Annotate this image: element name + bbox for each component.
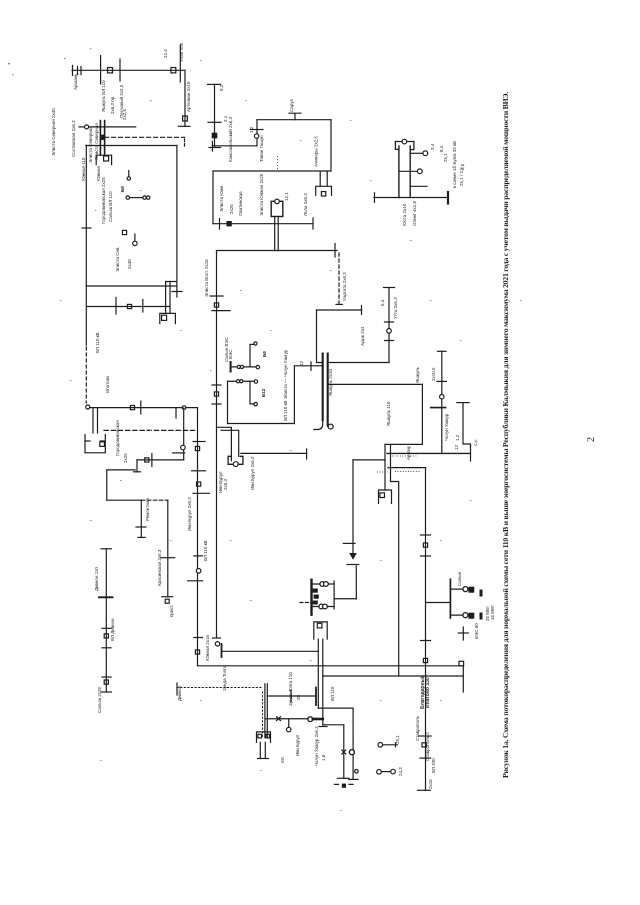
page number 2 <box>586 437 597 442</box>
label: south east <box>395 571 490 789</box>
label: line names top <box>101 42 319 167</box>
wire: corner <box>106 470 108 500</box>
breaker <box>423 543 427 547</box>
transformer: bracket east <box>316 186 332 195</box>
transformer: bracket <box>160 313 176 323</box>
wire: Elista long vertical <box>216 251 218 639</box>
wire: dashed left drop <box>85 347 87 403</box>
svg-text:24,3: 24,3 <box>398 767 403 776</box>
node: tick <box>212 384 221 386</box>
svg-text:Яшкуль ВЛ 110: Яшкуль ВЛ 110 <box>101 80 106 112</box>
breaker <box>197 482 201 486</box>
wire: second long bus <box>323 675 464 677</box>
wire: heavy link <box>313 718 323 721</box>
node: tick <box>334 244 336 258</box>
svg-text:12,1: 12,1 <box>284 192 289 201</box>
svg-text:12: 12 <box>299 360 304 366</box>
node: tick <box>102 627 111 629</box>
svg-text:Ачинеры 2х2,5: Ачинеры 2х2,5 <box>314 136 319 167</box>
transformer: Elista U-bracket <box>228 456 243 464</box>
busbar: Utta top <box>384 287 395 289</box>
wire: Utta-Yashkul column <box>441 351 443 453</box>
generator circle n1 <box>127 177 130 180</box>
disconnector: filled <box>227 222 231 226</box>
svg-text:20: 20 <box>296 694 301 700</box>
wire: link <box>107 499 142 501</box>
svg-text:Городовиковская: Городовиковская <box>115 420 120 456</box>
node: tick <box>102 676 111 678</box>
node: x junction <box>342 750 346 754</box>
node: end bar <box>417 789 430 791</box>
node: end bar <box>213 637 221 639</box>
wire: link <box>334 598 356 600</box>
wire: stub <box>183 450 185 460</box>
breaker Q1 <box>108 68 113 73</box>
breaker <box>214 303 218 307</box>
transformer circle <box>275 199 280 204</box>
generator circles rail2 <box>237 380 240 383</box>
svg-text:Б12: Б12 <box>261 388 266 397</box>
svg-text:12,4: 12,4 <box>163 49 168 58</box>
wire: drop 2 <box>352 738 354 779</box>
wire: 110kV bus Arshan top <box>72 69 185 71</box>
node: tick <box>437 380 447 382</box>
breaker <box>195 650 199 654</box>
node: tick long <box>212 310 230 312</box>
wire: ring2 right <box>176 146 178 298</box>
load arrow <box>349 553 357 560</box>
svg-text:Ставрополь 2: Ставрополь 2 <box>425 732 430 761</box>
wire + generator circle 2 <box>400 170 418 172</box>
transformer: castle bracket <box>85 435 105 453</box>
node: tick <box>140 401 142 414</box>
wire: Remontnaya stub <box>136 460 138 472</box>
wire: stub down <box>288 719 290 727</box>
svg-text:Дивное: Дивное <box>177 685 182 701</box>
disconnector: filled marks <box>313 589 318 593</box>
wire: dashed stub <box>184 139 186 146</box>
svg-text:Элиста Северная 2х40: Элиста Северная 2х40 <box>51 108 56 156</box>
label: B8 mark <box>120 186 125 192</box>
wire: branch <box>267 695 316 697</box>
wire: link <box>89 126 136 128</box>
svg-text:Харгата 2х6,3: Харгата 2х6,3 <box>342 272 347 301</box>
wire: ring2 top <box>86 145 177 147</box>
label: center south <box>187 497 335 766</box>
svg-text:25,1: 25,1 <box>395 735 400 744</box>
svg-text:ВЛ 110 кВ: ВЛ 110 кВ <box>203 540 208 561</box>
breaker Q2 <box>171 68 176 73</box>
svg-text:2: 2 <box>586 437 597 442</box>
wire: stub <box>128 171 130 177</box>
svg-text:2х25: 2х25 <box>123 453 128 463</box>
svg-text:Арзгир: Арзгир <box>406 445 411 460</box>
wire: pair below <box>260 742 265 758</box>
busbar: Yusta <box>374 197 448 199</box>
svg-text:Элиста Северная: Элиста Северная <box>94 123 99 160</box>
node: end bar <box>361 306 363 315</box>
node: tick <box>192 470 206 472</box>
wire: pair south <box>318 639 323 725</box>
label: extra <box>94 123 255 490</box>
wire: riser <box>256 120 258 146</box>
node: tap ticks <box>78 67 82 75</box>
svg-text:Элиста Вост. 2х16: Элиста Вост. 2х16 <box>204 259 209 297</box>
transformer: bracket <box>257 732 271 742</box>
busbar: right end bar <box>447 192 449 203</box>
svg-text:Южная 110: Южная 110 <box>81 157 86 181</box>
svg-text:Красинская 2х6,3: Красинская 2х6,3 <box>157 549 162 586</box>
svg-text:25,1: 25,1 <box>443 153 448 162</box>
wire: drop left <box>227 381 229 423</box>
junction circle <box>182 406 186 410</box>
node: end tick <box>211 142 213 152</box>
wire: ring bottom edge <box>213 223 313 225</box>
disconnector: filled <box>101 135 105 139</box>
svg-text:3,4: 3,4 <box>430 143 435 150</box>
svg-text:прист.: прист. <box>169 604 174 617</box>
node: tick <box>136 526 146 528</box>
busbar: MKGRES lower <box>310 599 312 615</box>
node: side ticks <box>335 783 354 785</box>
wire: dashed south tie <box>104 429 196 431</box>
node: tick <box>161 557 175 559</box>
node: tick <box>343 542 355 544</box>
wire: link east <box>294 365 322 367</box>
node: left end tick <box>374 193 376 203</box>
transformer: Elista East pair <box>166 282 170 314</box>
generator circle v1 <box>463 587 468 592</box>
busbar: top bar <box>457 402 469 404</box>
wire: stub <box>352 543 354 553</box>
svg-text:Оватинская: Оватинская <box>238 191 243 216</box>
node: end bar <box>138 536 145 538</box>
node: end bar <box>349 778 358 780</box>
busbar: wind <box>230 362 232 372</box>
node: tick <box>385 340 394 342</box>
wire: double drop Yusta <box>399 146 410 198</box>
generator circle <box>133 241 137 245</box>
svg-text:5,4: 5,4 <box>380 299 385 306</box>
svg-text:Улан Хол: Улан Хол <box>179 42 184 62</box>
busbar: bar <box>173 452 185 454</box>
node: tick <box>208 121 221 123</box>
transformer circle Sostinskaya <box>85 125 89 129</box>
svg-text:Чолун Хамур 2х6,3: Чолун Хамур 2х6,3 <box>314 726 319 766</box>
node: tick <box>219 219 221 230</box>
wire: hook <box>250 344 254 367</box>
wire: link to thick bus <box>328 362 389 364</box>
node: bar <box>290 690 292 702</box>
busbar: end <box>315 688 317 706</box>
node: load bar <box>347 564 359 566</box>
svg-text:ВЭС 60: ВЭС 60 <box>474 623 479 639</box>
wire: bottom rail <box>228 423 295 425</box>
node: top tick <box>101 548 112 550</box>
transformer: Elista West pair <box>93 408 98 433</box>
breaker <box>459 661 464 666</box>
node: tick <box>421 640 431 642</box>
wire: drop mid <box>250 381 254 404</box>
busbar: double pair <box>100 121 104 155</box>
transformer circle <box>181 445 186 450</box>
wire: line with jog <box>463 403 471 446</box>
wire: branch <box>323 724 344 726</box>
svg-text:Состинская 2х6,3: Состинская 2х6,3 <box>71 120 76 157</box>
breaker <box>100 442 105 447</box>
transformer: bracket <box>379 490 392 503</box>
node: end bar <box>306 449 308 459</box>
breaker <box>130 406 134 410</box>
wire: heavy line to Arzgir <box>387 452 471 454</box>
wire: double drop <box>275 217 279 251</box>
svg-text:Яшкуль 2х10: Яшкуль 2х10 <box>328 368 333 396</box>
svg-text:Зунда Толга 110: Зунда Толга 110 <box>288 672 293 706</box>
svg-text:Юг: Юг <box>280 756 285 763</box>
wire: riser <box>183 408 185 445</box>
generator circle wind2 <box>254 403 257 406</box>
wire: drop to bracket <box>384 444 386 490</box>
transformer circle <box>215 642 219 646</box>
svg-text:2х25: 2х25 <box>229 204 234 214</box>
busbar: bar <box>188 580 203 582</box>
breaker <box>214 392 218 396</box>
wire: ring2 left <box>85 146 87 346</box>
wire: stub <box>381 771 390 773</box>
svg-text:ВЛ 110 кВ Элиста — Чолун Хамур: ВЛ 110 кВ Элиста — Чолун Хамур <box>283 349 288 421</box>
disconnector: filled <box>212 133 216 137</box>
breaker <box>104 156 109 161</box>
caption: figure title <box>501 92 510 778</box>
label: Yusta block <box>402 141 465 226</box>
wire: rail1 <box>232 366 256 368</box>
svg-text:Городовиковская 2х25: Городовиковская 2х25 <box>101 177 106 224</box>
wire: Yashkul drop <box>214 84 216 147</box>
transformer circle <box>387 329 392 334</box>
svg-text:2х6,3: 2х6,3 <box>223 478 228 490</box>
wire: dashed tie <box>105 136 185 138</box>
wire: drop to Artezian <box>184 70 186 126</box>
node: tick <box>420 757 431 759</box>
svg-text:2х2,5: 2х2,5 <box>122 108 127 120</box>
wire: dotted stub above ring <box>277 156 279 171</box>
generator circle small <box>355 770 359 774</box>
node: tick <box>175 408 177 418</box>
wire: stub to VES <box>426 602 451 604</box>
node: end bar <box>179 125 191 127</box>
svg-text:Комсомольский 2х6,3: Комсомольский 2х6,3 <box>227 117 233 162</box>
wire: drop right <box>330 120 332 171</box>
wire: corner <box>318 708 353 738</box>
wire: ring2 bottom <box>86 285 177 287</box>
wire: dotted vertical <box>262 692 264 737</box>
svg-text:Элиста Сев.: Элиста Сев. <box>115 246 120 272</box>
generator circle wind1 <box>254 342 257 345</box>
svg-text:Ики Бурул 2х6,3: Ики Бурул 2х6,3 <box>250 456 255 490</box>
node: tick <box>419 735 431 737</box>
wire: Krasinskaya drop <box>167 500 169 597</box>
wire: dashed Krasinskaya <box>141 499 168 501</box>
svg-text:Утта 2х6,3: Утта 2х6,3 <box>393 297 398 319</box>
node: end bar <box>312 218 314 229</box>
wire: link <box>137 459 184 461</box>
breaker Q3 <box>183 116 188 121</box>
node: bus left end tick <box>72 66 74 76</box>
svg-text:к схеме 1б Бузга 35 кВ: к схеме 1б Бузга 35 кВ <box>452 141 457 188</box>
svg-text:2х16: 2х16 <box>428 779 433 789</box>
svg-text:Южная: Южная <box>96 165 101 181</box>
label: wind cluster <box>224 336 304 421</box>
busbar: bar <box>431 407 446 409</box>
svg-text:8,2: 8,2 <box>219 84 224 91</box>
generator circle <box>287 727 291 731</box>
wire: rail <box>131 197 143 199</box>
wire: rail2 <box>228 380 255 382</box>
node: end bar <box>258 758 269 760</box>
svg-text:ВЛ Дивное: ВЛ Дивное <box>110 618 115 641</box>
node: thick tick <box>99 596 113 598</box>
transformer T1 circle <box>254 134 258 138</box>
wire: branch 2 <box>266 718 310 720</box>
node: tick <box>410 185 427 187</box>
wire: double drop to transformer <box>320 172 327 187</box>
transformer: bracket <box>96 155 111 164</box>
node: tap symbol <box>289 113 301 120</box>
generator circle v2 <box>463 613 468 618</box>
svg-text:Элиста Южн.: Элиста Южн. <box>219 184 224 212</box>
svg-text:Лола 2х6,3: Лола 2х6,3 <box>303 193 308 216</box>
wire: load feeder <box>352 460 354 544</box>
node: tick <box>251 129 264 131</box>
svg-text:Б8: Б8 <box>120 186 125 192</box>
svg-text:Ики-Бурул 2х6,3: Ики-Бурул 2х6,3 <box>187 497 192 531</box>
transformer circle <box>440 395 444 399</box>
svg-text:Аршань: Аршань <box>73 73 78 90</box>
wire: Blagodarny long line <box>425 468 427 791</box>
disconnector: filled <box>342 784 346 788</box>
breaker <box>423 658 427 662</box>
generator circle <box>391 769 396 774</box>
svg-text:Яшкуль: Яшкуль <box>415 366 420 383</box>
generator circle <box>377 770 382 775</box>
breaker <box>162 315 167 320</box>
wire + generator circle <box>410 152 423 154</box>
wire: stub with plus <box>383 743 398 747</box>
busbar: bottom bar <box>209 147 221 149</box>
generator circle <box>378 743 383 748</box>
wire: link east <box>212 145 257 147</box>
generator stub <box>134 234 136 241</box>
busbar: thick feeder pair <box>323 354 328 426</box>
svg-text:ВЛ 110: ВЛ 110 <box>330 686 335 701</box>
svg-text:Адык 2х4: Адык 2х4 <box>360 326 365 346</box>
breaker <box>145 458 149 462</box>
svg-text:ВЭС: ВЭС <box>228 349 233 359</box>
svg-text:Ипатово: Ипатово <box>105 375 110 393</box>
node: tick <box>385 321 394 323</box>
wire: corner to load <box>353 459 385 461</box>
breaker <box>380 493 385 498</box>
generator circles g2 pair <box>319 604 324 609</box>
svg-text:25,1 / 2,5: 25,1 / 2,5 <box>459 167 464 186</box>
svg-text:Юста 2х10: Юста 2х10 <box>402 203 407 226</box>
wire: riser east <box>293 366 295 424</box>
wire: dashed tie <box>338 253 340 304</box>
wire: links <box>312 584 335 607</box>
label: extra columns right <box>386 145 495 761</box>
node: end bar <box>470 446 472 461</box>
wire: Iki-Burul long vertical <box>197 408 199 666</box>
busbar: VES <box>449 579 451 618</box>
node: tick <box>458 632 468 634</box>
svg-text:Чолун Хамур: Чолун Хамур <box>444 413 449 441</box>
wire: west bus <box>90 407 198 409</box>
wire: Gorodovikovsk branch <box>107 469 135 471</box>
wire: riser <box>355 566 357 599</box>
node: end tick <box>319 726 327 728</box>
svg-text:1,2: 1,2 <box>249 126 254 133</box>
node: tick <box>115 298 117 315</box>
breaker <box>165 599 169 603</box>
node: tick <box>421 555 431 557</box>
transformer: Elista South box <box>271 201 283 216</box>
wire: ring top (Yashkul ring) <box>328 383 423 385</box>
breaker <box>195 446 199 450</box>
wire: crossing branch 2 <box>179 45 181 82</box>
wire: ring bottom <box>385 443 422 445</box>
svg-text:2х6,3 пр.: 2х6,3 пр. <box>110 96 115 114</box>
wire: bus Elista south <box>217 250 338 252</box>
generator circles rail1 <box>237 365 240 368</box>
wire: drop <box>343 725 345 779</box>
label: extra columns left <box>51 108 293 706</box>
wire: corner down <box>317 310 323 363</box>
breaker in bracket <box>321 192 325 196</box>
transformer circle <box>233 462 238 467</box>
node: end bar <box>162 596 173 598</box>
svg-text:1,8: 1,8 <box>321 754 326 761</box>
transformer circle <box>402 139 407 144</box>
svg-text:Элиста Южная 2х25: Элиста Южная 2х25 <box>259 173 264 216</box>
svg-text:8,4: 8,4 <box>439 145 444 152</box>
wire: Divnoe long line <box>105 549 107 692</box>
node: tick <box>210 295 223 297</box>
wire: 110kV line east <box>257 119 331 121</box>
breaker <box>317 623 322 628</box>
speckle noise from scan <box>8 48 521 811</box>
svg-text:2х40: 2х40 <box>127 259 132 269</box>
svg-text:Ипатово 330: Ипатово 330 <box>425 677 431 708</box>
svg-text:ВЛ 330: ВЛ 330 <box>431 758 436 773</box>
node: tick <box>194 555 203 557</box>
svg-text:Сальск ВЛ 110: Сальск ВЛ 110 <box>108 191 113 222</box>
node: x junction <box>277 717 281 721</box>
wire: Utta drop <box>388 288 390 363</box>
wire: drop <box>140 500 142 537</box>
wire: ring left edge <box>212 171 214 224</box>
node: end bar <box>102 691 112 693</box>
node: tick on left ring edge <box>82 227 91 229</box>
wire: jog a <box>217 427 232 461</box>
node: tick <box>172 291 182 293</box>
wire: crossing branch <box>100 56 102 84</box>
node: tick <box>421 534 431 536</box>
transformer: bracket <box>314 622 327 639</box>
svg-text:Сальск 2х25: Сальск 2х25 <box>97 687 102 713</box>
breaker <box>104 680 108 684</box>
svg-text:Южная 2х16: Южная 2х16 <box>205 635 210 661</box>
svg-text:2х10,5: 2х10,5 <box>431 367 436 381</box>
